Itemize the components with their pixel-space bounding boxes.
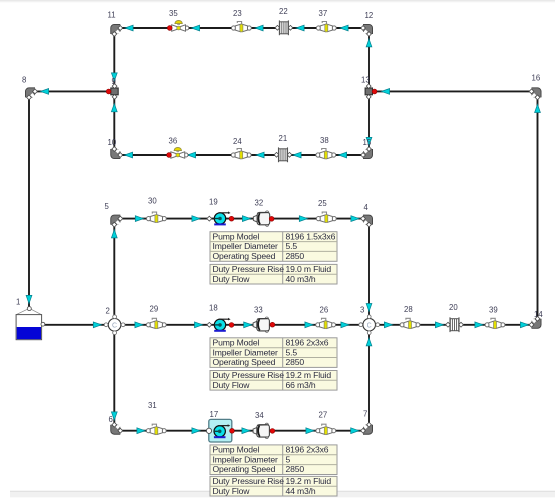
svg-text:19.0 m Fluid: 19.0 m Fluid xyxy=(286,264,332,274)
check valve J25 xyxy=(316,199,336,223)
pipe J13 down to J15 xyxy=(366,96,372,151)
check valve J38 xyxy=(316,136,336,159)
elbow J6 xyxy=(109,415,123,433)
pump J17 (selected) xyxy=(206,410,234,442)
svg-text:2850: 2850 xyxy=(286,251,305,261)
svg-text:8: 8 xyxy=(22,76,26,85)
pipe J16 to J13 xyxy=(374,89,533,95)
svg-text:6: 6 xyxy=(109,415,113,424)
svg-text:30: 30 xyxy=(148,197,157,206)
check valve J27 xyxy=(316,411,336,435)
check valve J23 xyxy=(232,9,252,32)
check valve J37 xyxy=(316,9,336,32)
svg-text:10: 10 xyxy=(108,138,117,147)
svg-text:44 m3/h: 44 m3/h xyxy=(286,486,316,496)
svg-text:Operating Speed: Operating Speed xyxy=(213,251,276,261)
pipe branch J3 to J14 xyxy=(376,322,533,328)
svg-text:5: 5 xyxy=(286,454,291,464)
svg-text:20: 20 xyxy=(449,303,458,312)
control valve J35 xyxy=(167,9,189,31)
pipe J9 down to J10 xyxy=(111,96,117,151)
heat exchanger J20 xyxy=(446,303,464,332)
svg-text:32: 32 xyxy=(255,199,264,208)
pipe reservoir J1 to branch J2 xyxy=(44,322,107,328)
pipe top row 2 (J15 to J10) xyxy=(118,152,365,158)
check valve J28 xyxy=(400,305,420,329)
svg-text:36: 36 xyxy=(169,137,178,146)
check valve J24 xyxy=(231,137,251,159)
svg-text:1: 1 xyxy=(16,298,20,307)
top window edge xyxy=(0,0,555,3)
svg-text:5.5: 5.5 xyxy=(286,241,298,251)
pipe J11 down to J9 xyxy=(111,32,117,87)
pipe J8 down to reservoir J1 xyxy=(26,96,32,307)
svg-text:Pump Model: Pump Model xyxy=(213,445,260,455)
svg-text:8196 1.5x3x6: 8196 1.5x3x6 xyxy=(286,231,336,241)
svg-text:5: 5 xyxy=(105,202,110,211)
svg-text:12: 12 xyxy=(365,11,374,20)
svg-text:Duty Flow: Duty Flow xyxy=(213,380,251,390)
pipe J7 up to branch J3 xyxy=(366,332,372,426)
svg-text:Pump Model: Pump Model xyxy=(213,337,260,347)
svg-text:18: 18 xyxy=(209,304,218,313)
svg-text:8196 2x3x6: 8196 2x3x6 xyxy=(286,337,329,347)
svg-text:19.2 m Fluid: 19.2 m Fluid xyxy=(286,370,332,380)
svg-text:21: 21 xyxy=(279,134,288,143)
svg-text:66 m3/h: 66 m3/h xyxy=(286,380,316,390)
svg-text:Operating Speed: Operating Speed xyxy=(213,357,276,367)
svg-text:38: 38 xyxy=(320,136,329,145)
svg-text:7: 7 xyxy=(363,410,367,419)
svg-text:40 m3/h: 40 m3/h xyxy=(286,274,316,284)
pipe row A (J5 to J4) xyxy=(118,216,365,222)
heat exchanger J21 xyxy=(274,134,292,162)
pump J18 xyxy=(207,304,234,332)
elbow J10 xyxy=(108,138,123,157)
svg-text:Impeller Diameter: Impeller Diameter xyxy=(213,241,279,251)
pump J19 xyxy=(207,198,234,226)
branch J2 xyxy=(104,307,125,335)
svg-text:Duty Flow: Duty Flow xyxy=(213,486,251,496)
svg-text:2850: 2850 xyxy=(286,357,305,367)
svg-text:37: 37 xyxy=(319,9,328,18)
svg-text:22: 22 xyxy=(279,7,288,16)
svg-text:5.5: 5.5 xyxy=(286,347,298,357)
check valve J29 xyxy=(146,305,166,329)
elbow J5 xyxy=(105,202,123,227)
svg-text:11: 11 xyxy=(108,11,116,20)
svg-text:4: 4 xyxy=(364,203,369,212)
check valve J30 xyxy=(147,197,167,223)
svg-text:2850: 2850 xyxy=(286,464,305,474)
check valve J31 xyxy=(146,401,166,435)
svg-text:23: 23 xyxy=(233,9,242,18)
pipe endpoint marker at J13 (red) xyxy=(372,89,377,94)
svg-text:25: 25 xyxy=(318,199,327,208)
elbow J16 xyxy=(529,74,540,100)
svg-text:33: 33 xyxy=(254,306,263,315)
svg-text:Duty Flow: Duty Flow xyxy=(213,274,251,284)
svg-text:16: 16 xyxy=(532,74,541,83)
svg-text:19: 19 xyxy=(209,198,218,207)
pipe J4 down to branch J3 xyxy=(366,225,372,318)
annotation table for pump J17 xyxy=(210,445,337,497)
svg-text:3: 3 xyxy=(360,306,364,315)
svg-text:29: 29 xyxy=(150,305,159,314)
svg-text:Duty Pressure Rise: Duty Pressure Rise xyxy=(213,370,285,380)
heat exchanger J22 xyxy=(275,7,293,35)
svg-text:Impeller Diameter: Impeller Diameter xyxy=(213,347,279,357)
svg-text:39: 39 xyxy=(489,306,498,315)
annotation table for pump J19 xyxy=(210,231,337,284)
svg-text:2: 2 xyxy=(106,307,110,316)
annotation table for pump J18 xyxy=(210,337,337,390)
pipe top row 1 (J12 to J11) xyxy=(118,25,365,31)
pipe branch J2 down to J6 xyxy=(111,332,117,426)
pipe branch J2 up to J5 xyxy=(111,225,117,318)
svg-text:26: 26 xyxy=(320,306,329,315)
svg-text:19.2 m Fluid: 19.2 m Fluid xyxy=(286,476,332,486)
pipe J13 up to J12 xyxy=(366,32,372,87)
svg-text:8196 2x3x6: 8196 2x3x6 xyxy=(286,445,329,455)
pipe endpoint marker at J9 (red) xyxy=(106,89,111,94)
tee J9 xyxy=(111,77,118,99)
elbow J12 xyxy=(361,11,374,36)
bottom scrollbar strip xyxy=(10,491,555,497)
elbow J4 xyxy=(361,203,372,227)
svg-text:28: 28 xyxy=(404,305,413,314)
branch J3 xyxy=(359,306,380,335)
pipe row C (J6 to J7) xyxy=(118,428,365,434)
elbow J14 xyxy=(529,310,543,327)
svg-text:27: 27 xyxy=(319,411,328,420)
tee J13 xyxy=(361,76,373,100)
svg-text:Duty Pressure Rise: Duty Pressure Rise xyxy=(213,264,285,274)
svg-text:Pump Model: Pump Model xyxy=(213,231,260,241)
svg-text:17: 17 xyxy=(210,410,219,419)
svg-text:24: 24 xyxy=(233,137,242,146)
control valve J36 xyxy=(167,137,188,159)
svg-text:13: 13 xyxy=(361,76,370,85)
svg-text:31: 31 xyxy=(148,401,157,410)
check valve J26 xyxy=(316,306,336,329)
swing check valve J34 xyxy=(253,411,275,439)
svg-text:34: 34 xyxy=(255,411,264,420)
elbow J8 xyxy=(22,76,37,100)
pipe J9 to J8 xyxy=(34,89,110,95)
swing check valve J32 xyxy=(253,199,274,227)
elbow J7 xyxy=(361,410,372,434)
svg-text:Duty Pressure Rise: Duty Pressure Rise xyxy=(213,476,285,486)
reservoir J1 xyxy=(16,298,45,340)
svg-text:35: 35 xyxy=(169,9,178,18)
svg-text:15: 15 xyxy=(363,138,372,147)
check valve J39 xyxy=(485,306,505,329)
pipe J14 up to J16 (right side riser) xyxy=(535,96,541,320)
elbow J15 xyxy=(361,138,372,157)
svg-text:Impeller Diameter: Impeller Diameter xyxy=(213,454,279,464)
pipe row B (J2 to J3) xyxy=(122,322,362,328)
swing check valve J33 xyxy=(253,306,275,333)
elbow J11 xyxy=(108,11,123,37)
svg-text:Operating Speed: Operating Speed xyxy=(213,464,276,474)
